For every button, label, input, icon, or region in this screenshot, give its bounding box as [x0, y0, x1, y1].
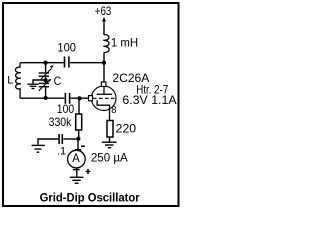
svg-text:.1: .1	[57, 146, 66, 158]
wire grid lead	[71, 97, 89, 99]
svg-text:C: C	[54, 74, 62, 88]
svg-text:330k: 330k	[49, 115, 73, 129]
node grid leak junction	[77, 96, 81, 100]
wire meter feed	[77, 139, 79, 150]
wire rotor tap to ground	[33, 80, 46, 84]
capacitor C split-stator variable	[39, 63, 49, 98]
terminal tick top	[75, 149, 81, 151]
terminal tick bottom	[73, 169, 80, 171]
svg-text:Grid-Dip Oscillator: Grid-Dip Oscillator	[40, 193, 140, 205]
svg-text:220: 220	[116, 121, 137, 135]
wire choke to plate cap	[103, 53, 105, 82]
wire bypass to ground	[38, 139, 58, 145]
node rotor tap	[44, 78, 48, 82]
capacitor 100 (plate coupling)	[65, 56, 69, 67]
resistor 330k grid leak	[78, 98, 80, 114]
node tank top junction	[44, 61, 48, 65]
minus terminal mark	[81, 145, 85, 147]
pin grid square	[89, 96, 93, 101]
svg-text:+63: +63	[95, 4, 112, 18]
capacitor .1 bypass	[59, 134, 62, 144]
border frame	[3, 3, 179, 206]
arrow variable (bottom section)	[39, 80, 50, 91]
inductor 1 mH plate choke	[103, 35, 109, 53]
cathode electrode and lead	[97, 100, 109, 120]
node tank bottom junction	[44, 96, 48, 100]
wire cathode resistor to ground	[109, 137, 111, 142]
node meter junction	[76, 137, 80, 141]
plate electrode	[97, 87, 113, 95]
svg-text:100: 100	[57, 40, 76, 54]
svg-text:A: A	[72, 151, 80, 165]
tube 2C26A envelope	[91, 86, 116, 111]
wire grid leak to meter node	[78, 130, 80, 139]
svg-text:6.3V 1.1A: 6.3V 1.1A	[122, 93, 176, 107]
resistor 220 cathode bias	[107, 121, 113, 138]
svg-text:1 mH: 1 mH	[111, 35, 138, 49]
ground (cathode)	[102, 142, 117, 148]
wire bypass branch	[64, 138, 77, 140]
meter A 250 uA	[68, 150, 86, 168]
wire bottom rail	[20, 97, 64, 99]
ground (tank rotor)	[27, 84, 39, 88]
capacitor 100 (grid coupling)	[65, 93, 69, 104]
wire top rail right	[70, 62, 104, 64]
wire meter to ground	[76, 168, 78, 177]
svg-text:250 µA: 250 µA	[91, 151, 128, 165]
wire top rail left	[20, 62, 64, 64]
ground (meter)	[70, 177, 84, 183]
arrow variable (top section)	[41, 68, 52, 79]
pin plate cap square	[101, 82, 106, 87]
svg-text:L: L	[7, 74, 13, 86]
node plate/choke junction	[102, 61, 106, 65]
svg-text:8: 8	[111, 105, 117, 116]
wire supply feed with arrow	[103, 20, 105, 35]
plus terminal mark	[86, 169, 91, 174]
inductor L tank coil	[15, 63, 21, 98]
ground (bypass)	[32, 145, 45, 152]
grid electrode (dashed)	[93, 97, 115, 99]
